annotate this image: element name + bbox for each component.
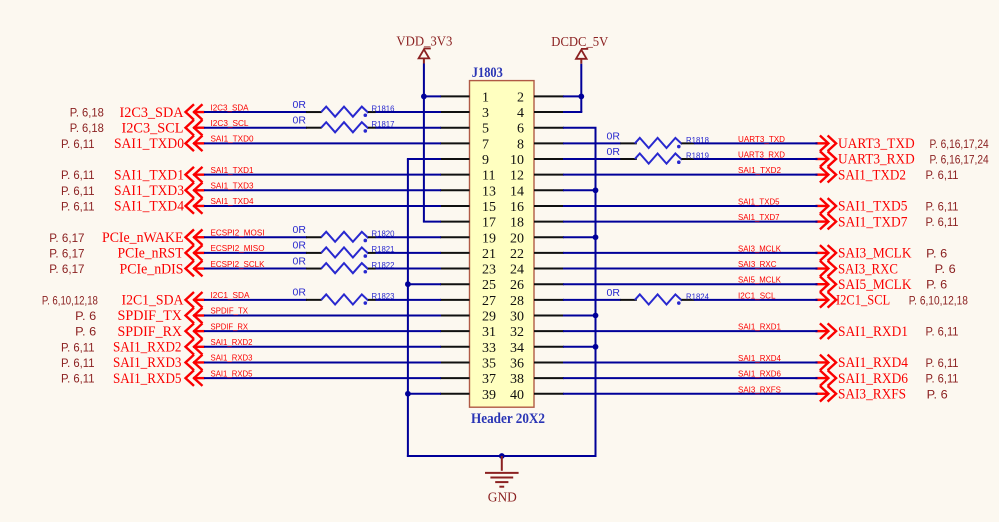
comment Header 20X2 xyxy=(471,411,545,427)
wire GND right vertical from pin 6 xyxy=(595,128,597,457)
pin 5 xyxy=(440,122,489,137)
pin 29 xyxy=(440,310,496,325)
page ref P. 6,17 for PCIe_nWAKE xyxy=(49,231,85,245)
net label UART3_TXD (right) xyxy=(738,134,785,144)
svg-text:17: 17 xyxy=(482,216,496,231)
pin 40 xyxy=(510,388,564,403)
port PCIe_nDIS (left) xyxy=(120,261,205,278)
pin 10 xyxy=(510,153,564,168)
svg-text:I2C3_SDA: I2C3_SDA xyxy=(120,105,185,121)
svg-text:P. 6,17: P. 6,17 xyxy=(49,246,85,260)
page ref P. 6,17 for PCIe_nRST xyxy=(49,246,85,260)
junction GND / pin 30 xyxy=(593,313,599,319)
net label SAI3_RXFS (right) xyxy=(738,384,781,394)
pin 13 xyxy=(440,184,496,199)
port PCIe_nRST (left) xyxy=(118,245,205,262)
wire DCDC_5V vertical to pin 4 xyxy=(580,64,582,112)
svg-text:SAI1_TXD4: SAI1_TXD4 xyxy=(211,196,254,206)
svg-text:25: 25 xyxy=(482,278,496,293)
wire ECSPI2_MOSI to resistor xyxy=(204,236,307,238)
svg-text:SAI1_TXD7: SAI1_TXD7 xyxy=(838,214,908,230)
net label GND xyxy=(488,490,517,505)
svg-text:SAI1_RXD1: SAI1_RXD1 xyxy=(738,322,781,332)
svg-text:SAI1_RXD2: SAI1_RXD2 xyxy=(211,337,253,347)
svg-text:SAI1_TXD0: SAI1_TXD0 xyxy=(114,136,184,152)
svg-text:12: 12 xyxy=(510,169,524,184)
designator J1803 xyxy=(472,65,503,81)
svg-text:4: 4 xyxy=(517,106,524,121)
wire SPDIF_RX to pin 31 xyxy=(204,330,441,332)
wire resistor R1820 to pin 19 xyxy=(376,236,442,238)
svg-text:SPDIF_RX: SPDIF_RX xyxy=(118,324,183,340)
wire GND left vertical from pin 9 xyxy=(407,159,409,457)
page ref P. 6,11 for SAI1_TXD4 xyxy=(61,199,95,213)
wire I2C3_SDA to resistor xyxy=(204,111,307,113)
page ref P. 6,11 for SAI1_RXD5 xyxy=(61,372,95,386)
wire pin 16 to port SAI1_TXD5 xyxy=(563,205,818,207)
page ref P. 6,11 for SAI1_TXD2 xyxy=(926,168,959,182)
wire resistor R1824 to port I2C1_SCL xyxy=(694,299,818,301)
port SAI1_TXD4 (left) xyxy=(114,198,205,215)
page ref P. 6 for SPDIF_RX xyxy=(75,325,96,339)
page ref P. 6,16,17,24 for UART3_TXD xyxy=(930,137,989,151)
svg-text:33: 33 xyxy=(482,341,496,356)
net label SAI1_RXD2 xyxy=(211,337,253,347)
net label SPDIF_RX xyxy=(211,321,249,331)
svg-text:SAI1_RXD4: SAI1_RXD4 xyxy=(838,355,908,371)
wire pin 28 to resistor xyxy=(563,299,621,301)
resistor R1822 0R xyxy=(293,255,395,273)
wire pin 26 to port SAI5_MCLK xyxy=(563,283,818,285)
svg-text:37: 37 xyxy=(482,372,496,387)
svg-text:DCDC_5V: DCDC_5V xyxy=(551,34,608,49)
svg-text:38: 38 xyxy=(510,372,524,387)
pin 28 xyxy=(510,294,564,309)
page ref P. 6,11 for SAI1_TXD7 xyxy=(926,215,959,229)
net label I2C3_SDA xyxy=(211,102,249,112)
svg-text:19: 19 xyxy=(482,231,496,246)
svg-text:ECSPI2_SCLK: ECSPI2_SCLK xyxy=(211,259,265,269)
svg-text:PCIe_nWAKE: PCIe_nWAKE xyxy=(102,230,184,246)
pin 6 xyxy=(517,122,564,137)
svg-text:16: 16 xyxy=(510,200,524,215)
junction DCDC_5V / pin 2 xyxy=(578,94,584,100)
port SAI1_TXD3 (left) xyxy=(114,182,205,199)
svg-text:UART3_TXD: UART3_TXD xyxy=(738,134,785,144)
page ref P. 6,11 for SAI1_RXD3 xyxy=(61,356,95,370)
wire SAI1_RXD5 to pin 37 xyxy=(204,377,441,379)
port UART3_TXD (right) xyxy=(816,136,915,153)
resistor R1824 0R xyxy=(607,287,710,305)
net label ECSPI2_MOSI xyxy=(211,227,265,237)
pin 30 xyxy=(510,310,564,325)
svg-text:18: 18 xyxy=(510,216,524,231)
port SAI1_RXD2 (left) xyxy=(113,339,205,356)
svg-text:I2C1_SCL: I2C1_SCL xyxy=(738,290,776,300)
svg-text:0R: 0R xyxy=(293,255,307,267)
pin 37 xyxy=(440,372,496,387)
svg-text:13: 13 xyxy=(482,184,496,199)
svg-text:P. 6,11: P. 6,11 xyxy=(926,215,959,229)
svg-text:0R: 0R xyxy=(293,114,307,126)
svg-text:SAI1_TXD5: SAI1_TXD5 xyxy=(838,199,908,215)
net label ECSPI2_SCLK xyxy=(211,259,265,269)
wire pin 36 to port SAI1_RXD4 xyxy=(563,361,818,363)
svg-text:SAI3_RXFS: SAI3_RXFS xyxy=(838,386,906,402)
svg-text:SAI1_TXD5: SAI1_TXD5 xyxy=(738,196,780,206)
pin 16 xyxy=(510,200,564,215)
page ref P. 6,11 for SAI1_RXD6 xyxy=(926,372,959,386)
svg-text:P. 6,18: P. 6,18 xyxy=(70,106,104,120)
svg-text:P. 6,18: P. 6,18 xyxy=(70,121,104,135)
svg-text:P. 6: P. 6 xyxy=(926,278,947,292)
pin 12 xyxy=(510,169,564,184)
svg-text:21: 21 xyxy=(482,247,496,262)
port SAI1_TXD5 (right) xyxy=(816,198,908,215)
svg-text:P. 6,11: P. 6,11 xyxy=(61,340,95,354)
svg-text:SAI1_TXD1: SAI1_TXD1 xyxy=(114,167,184,183)
wire SAI1_TXD4 to pin 15 xyxy=(204,205,441,207)
pin 36 xyxy=(510,356,564,371)
wire SAI1_RXD3 to pin 35 xyxy=(204,361,441,363)
svg-text:SAI3_MCLK: SAI3_MCLK xyxy=(838,246,912,262)
wire VDD_3V3 to pin 1 xyxy=(424,95,441,97)
wire pin 22 to port SAI3_MCLK xyxy=(563,252,818,254)
svg-text:P. 6,11: P. 6,11 xyxy=(61,168,95,182)
svg-text:SPDIF_TX: SPDIF_TX xyxy=(118,308,183,324)
wire pin 14 to GND vertical xyxy=(563,189,597,191)
svg-text:39: 39 xyxy=(482,388,496,403)
svg-text:9: 9 xyxy=(482,153,489,168)
svg-text:0R: 0R xyxy=(293,99,307,111)
svg-text:36: 36 xyxy=(510,356,524,371)
pin 15 xyxy=(440,200,496,215)
svg-text:I2C3_SCL: I2C3_SCL xyxy=(211,118,249,128)
port SAI1_RXD5 (left) xyxy=(113,370,205,387)
pin 19 xyxy=(440,231,496,246)
page ref P. 6,10,12,18 for I2C1_SDA xyxy=(42,293,98,307)
net label SAI1_TXD4 xyxy=(211,196,254,206)
svg-text:SAI1_RXD6: SAI1_RXD6 xyxy=(738,369,781,379)
port SAI1_RXD6 (right) xyxy=(816,370,909,387)
net label SAI1_RXD4 (right) xyxy=(738,353,781,363)
svg-text:SPDIF_TX: SPDIF_TX xyxy=(211,306,249,316)
net label SAI1_RXD3 xyxy=(211,353,253,363)
net label SAI3_RXC (right) xyxy=(738,259,777,269)
svg-text:28: 28 xyxy=(510,294,524,309)
svg-text:P. 6,16,17,24: P. 6,16,17,24 xyxy=(930,153,989,167)
resistor R1820 0R xyxy=(293,224,395,242)
svg-text:Header 20X2: Header 20X2 xyxy=(471,411,545,427)
pin 23 xyxy=(440,263,496,278)
wire pin 32 to port SAI1_RXD1 xyxy=(563,330,818,332)
svg-text:23: 23 xyxy=(482,263,496,278)
pin 39 xyxy=(440,388,496,403)
svg-text:I2C3_SDA: I2C3_SDA xyxy=(211,102,249,112)
pin 11 xyxy=(440,169,495,184)
svg-text:SAI3_RXFS: SAI3_RXFS xyxy=(738,384,781,394)
net label DCDC_5V xyxy=(551,34,608,49)
svg-text:14: 14 xyxy=(510,184,524,199)
wire ECSPI2_SCLK to resistor xyxy=(204,268,307,270)
svg-text:P. 6,16,17,24: P. 6,16,17,24 xyxy=(930,137,989,151)
svg-text:0R: 0R xyxy=(293,240,307,252)
net label SAI3_MCLK (right) xyxy=(738,243,781,253)
wire resistor R1819 to port UART3_RXD xyxy=(694,158,818,160)
resistor R1816 0R xyxy=(293,99,395,117)
svg-text:GND: GND xyxy=(488,490,517,505)
svg-text:SAI1_TXD2: SAI1_TXD2 xyxy=(838,167,906,183)
page ref P. 6 for SAI3_RXFS xyxy=(927,387,948,401)
svg-text:11: 11 xyxy=(482,169,495,184)
svg-text:6: 6 xyxy=(517,122,524,137)
resistor R1821 0R xyxy=(293,240,395,258)
pin 18 xyxy=(510,216,564,231)
net label SAI1_TXD3 xyxy=(211,181,254,191)
ground symbol GND xyxy=(485,456,519,487)
page ref P. 6 for SAI5_MCLK xyxy=(926,278,947,292)
net label SPDIF_TX xyxy=(211,306,249,316)
pin 21 xyxy=(440,247,496,262)
svg-text:ECSPI2_MISO: ECSPI2_MISO xyxy=(211,243,265,253)
pin 22 xyxy=(510,247,564,262)
page ref P. 6,11 for SAI1_TXD1 xyxy=(61,168,95,182)
svg-text:P. 6,10,12,18: P. 6,10,12,18 xyxy=(909,293,968,307)
pin 3 xyxy=(440,106,489,121)
svg-text:SPDIF_RX: SPDIF_RX xyxy=(211,321,249,331)
svg-text:P. 6,11: P. 6,11 xyxy=(926,168,959,182)
svg-text:SAI1_TXD1: SAI1_TXD1 xyxy=(211,165,254,175)
pin 20 xyxy=(510,231,564,246)
pin 31 xyxy=(440,325,496,340)
svg-text:VDD_3V3: VDD_3V3 xyxy=(396,34,452,49)
wire pin 25 to GND vertical xyxy=(407,283,441,285)
connector J1803 body xyxy=(470,81,535,408)
svg-text:SAI3_MCLK: SAI3_MCLK xyxy=(738,243,781,253)
svg-text:24: 24 xyxy=(510,263,524,278)
svg-text:I2C1_SCL: I2C1_SCL xyxy=(836,293,890,309)
svg-text:0R: 0R xyxy=(607,146,621,158)
pin 26 xyxy=(510,278,564,293)
wire resistor R1822 to pin 23 xyxy=(376,268,442,270)
page ref P. 6,11 for SAI1_TXD0 xyxy=(61,137,95,151)
svg-text:P. 6,11: P. 6,11 xyxy=(926,372,959,386)
svg-text:P. 6: P. 6 xyxy=(75,309,96,323)
port I2C1_SDA (left) xyxy=(122,292,205,309)
svg-text:UART3_RXD: UART3_RXD xyxy=(838,152,915,168)
wire pin 39 to GND vertical xyxy=(407,393,441,395)
wire pin 24 to port SAI3_RXC xyxy=(563,268,818,270)
wire pin 40 to port SAI3_RXFS xyxy=(563,393,818,395)
port SAI1_TXD2 (right) xyxy=(816,167,907,184)
wire pin 9 to GND vertical xyxy=(407,158,441,160)
svg-text:29: 29 xyxy=(482,310,496,325)
wire SAI1_TXD1 to pin 11 xyxy=(204,174,441,176)
page ref P. 6,16,17,24 for UART3_RXD xyxy=(930,153,989,167)
svg-text:SAI1_RXD3: SAI1_RXD3 xyxy=(113,355,182,371)
svg-text:8: 8 xyxy=(517,137,524,152)
page ref P. 6 for SAI3_RXC xyxy=(935,262,956,276)
junction GND / pin 25 xyxy=(405,281,411,287)
svg-text:SAI1_TXD3: SAI1_TXD3 xyxy=(114,183,184,199)
svg-text:SAI3_RXC: SAI3_RXC xyxy=(838,261,898,277)
pin 7 xyxy=(440,137,489,152)
svg-text:SAI1_RXD3: SAI1_RXD3 xyxy=(211,353,253,363)
wire pin 18 to port SAI1_TXD7 xyxy=(563,221,818,223)
svg-text:PCIe_nRST: PCIe_nRST xyxy=(118,246,184,262)
svg-text:SAI1_RXD6: SAI1_RXD6 xyxy=(838,371,908,387)
wire resistor R1818 to port UART3_TXD xyxy=(694,142,818,144)
svg-text:J1803: J1803 xyxy=(472,65,503,81)
pin 4 xyxy=(517,106,564,121)
junction GND / pin 20 xyxy=(593,234,599,240)
power symbol VDD_3V3 xyxy=(419,49,431,64)
page ref P. 6,11 for SAI1_TXD3 xyxy=(61,184,95,198)
wire pin 12 to port SAI1_TXD2 xyxy=(563,174,818,176)
pin 1 xyxy=(440,90,489,105)
page ref P. 6 for SAI3_MCLK xyxy=(926,246,947,260)
wire SAI1_TXD3 to pin 13 xyxy=(204,189,441,191)
svg-text:PCIe_nDIS: PCIe_nDIS xyxy=(120,261,184,277)
svg-text:26: 26 xyxy=(510,278,524,293)
port SAI1_TXD7 (right) xyxy=(816,214,908,231)
svg-text:0R: 0R xyxy=(607,130,621,142)
svg-text:20: 20 xyxy=(510,231,524,246)
junction GND / pin 34 xyxy=(593,344,599,350)
wire resistor R1817 to pin 5 xyxy=(376,127,442,129)
svg-text:P. 6,11: P. 6,11 xyxy=(926,325,959,339)
port I2C1_SCL (right) xyxy=(816,292,891,309)
net label SAI1_TXD5 (right) xyxy=(738,196,780,206)
svg-text:0R: 0R xyxy=(293,224,307,236)
page ref P. 6,18 for I2C3_SDA xyxy=(70,106,104,120)
net label I2C3_SCL xyxy=(211,118,249,128)
wire resistor R1823 to pin 27 xyxy=(376,299,442,301)
wire VDD_3V3 vertical to pin 17 xyxy=(423,64,425,222)
port SAI1_RXD4 (right) xyxy=(816,355,909,372)
svg-text:2: 2 xyxy=(517,90,524,105)
svg-text:34: 34 xyxy=(510,341,524,356)
svg-text:P. 6,11: P. 6,11 xyxy=(926,356,959,370)
svg-text:32: 32 xyxy=(510,325,524,340)
svg-text:15: 15 xyxy=(482,200,496,215)
port SAI1_RXD1 (right) xyxy=(816,323,909,340)
svg-text:UART3_RXD: UART3_RXD xyxy=(738,150,785,160)
wire I2C1_SDA to resistor xyxy=(204,299,307,301)
svg-text:0R: 0R xyxy=(607,287,621,299)
svg-text:I2C3_SCL: I2C3_SCL xyxy=(122,120,184,136)
wire pin 6 to GND vertical xyxy=(563,127,597,129)
svg-text:35: 35 xyxy=(482,356,496,371)
svg-text:P. 6: P. 6 xyxy=(935,262,956,276)
svg-text:SAI1_TXD4: SAI1_TXD4 xyxy=(114,199,184,215)
wire pin 20 to GND vertical xyxy=(563,236,597,238)
svg-text:P. 6,11: P. 6,11 xyxy=(61,356,95,370)
wire resistor R1821 to pin 21 xyxy=(376,252,442,254)
page ref P. 6,10,12,18 for I2C1_SCL xyxy=(909,293,968,307)
page ref P. 6,11 for SAI1_RXD2 xyxy=(61,340,95,354)
page ref P. 6,11 for SAI1_RXD1 xyxy=(926,325,959,339)
wire pin 30 to GND vertical xyxy=(563,315,597,317)
wire DCDC_5V to pin 4 xyxy=(563,111,582,113)
svg-text:SAI1_RXD5: SAI1_RXD5 xyxy=(113,371,182,387)
pin 24 xyxy=(510,263,564,278)
resistor R1818 0R xyxy=(607,130,710,148)
net label SAI1_RXD6 (right) xyxy=(738,369,781,379)
port SAI1_RXD3 (left) xyxy=(113,355,205,372)
port SPDIF_RX (left) xyxy=(118,323,205,340)
wire resistor R1816 to pin 3 xyxy=(376,111,442,113)
svg-text:P. 6,17: P. 6,17 xyxy=(49,262,85,276)
pin 2 xyxy=(517,90,564,105)
port I2C3_SDA (left) xyxy=(120,104,205,121)
net label I2C1_SCL (right) xyxy=(738,290,776,300)
wire pin 38 to port SAI1_RXD6 xyxy=(563,377,818,379)
pin 9 xyxy=(440,153,489,168)
svg-text:40: 40 xyxy=(510,388,524,403)
svg-text:I2C1_SDA: I2C1_SDA xyxy=(122,293,185,309)
svg-text:P. 6,11: P. 6,11 xyxy=(926,199,959,213)
svg-text:SAI1_RXD4: SAI1_RXD4 xyxy=(738,353,781,363)
svg-text:ECSPI2_MOSI: ECSPI2_MOSI xyxy=(211,227,265,237)
svg-text:P. 6,10,12,18: P. 6,10,12,18 xyxy=(42,293,98,307)
svg-text:UART3_TXD: UART3_TXD xyxy=(838,136,915,152)
wire I2C3_SCL to resistor xyxy=(204,127,307,129)
wire SAI1_RXD2 to pin 33 xyxy=(204,346,441,348)
pin 33 xyxy=(440,341,496,356)
svg-text:P. 6,11: P. 6,11 xyxy=(61,372,95,386)
svg-text:P. 6,11: P. 6,11 xyxy=(61,199,95,213)
svg-text:3: 3 xyxy=(482,106,489,121)
page ref P. 6,18 for I2C3_SCL xyxy=(70,121,104,135)
wire VDD_3V3 to pin 17 xyxy=(423,221,441,223)
svg-text:SAI1_TXD2: SAI1_TXD2 xyxy=(738,165,781,175)
wire pin 8 to resistor xyxy=(563,142,621,144)
junction VDD_3V3 / pin 1 xyxy=(421,94,427,100)
svg-text:P. 6: P. 6 xyxy=(75,325,96,339)
power symbol DCDC_5V xyxy=(576,49,588,64)
svg-text:P. 6,11: P. 6,11 xyxy=(61,184,95,198)
svg-text:SAI1_TXD0: SAI1_TXD0 xyxy=(211,134,254,144)
pin 32 xyxy=(510,325,564,340)
resistor R1817 0R xyxy=(293,114,395,132)
port SAI1_TXD0 (left) xyxy=(114,136,205,153)
svg-text:10: 10 xyxy=(510,153,524,168)
net label SAI1_TXD2 (right) xyxy=(738,165,781,175)
resistor R1823 0R xyxy=(293,287,395,305)
svg-text:SAI1_RXD5: SAI1_RXD5 xyxy=(211,368,253,378)
net label SAI1_TXD0 xyxy=(211,134,254,144)
port SAI3_RXC (right) xyxy=(816,261,899,278)
port SPDIF_TX (left) xyxy=(118,308,205,325)
page ref P. 6,11 for SAI1_TXD5 xyxy=(926,199,959,213)
svg-text:SAI1_TXD3: SAI1_TXD3 xyxy=(211,181,254,191)
svg-text:22: 22 xyxy=(510,247,524,262)
svg-text:P. 6: P. 6 xyxy=(927,387,948,401)
pin 17 xyxy=(440,216,496,231)
net label ECSPI2_MISO xyxy=(211,243,265,253)
svg-text:SAI1_RXD1: SAI1_RXD1 xyxy=(838,324,908,340)
page ref P. 6 for SPDIF_TX xyxy=(75,309,96,323)
svg-text:30: 30 xyxy=(510,310,524,325)
pin 27 xyxy=(440,294,496,309)
svg-text:P. 6,11: P. 6,11 xyxy=(61,137,95,151)
wire GND bottom rail xyxy=(407,455,597,457)
svg-text:31: 31 xyxy=(482,325,496,340)
svg-text:SAI5_MCLK: SAI5_MCLK xyxy=(838,277,912,293)
svg-text:SAI1_TXD7: SAI1_TXD7 xyxy=(738,212,780,222)
net label SAI1_RXD1 (right) xyxy=(738,322,781,332)
